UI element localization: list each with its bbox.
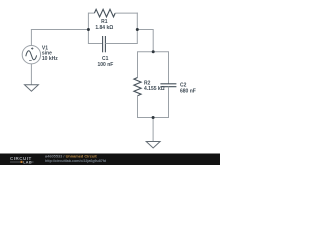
- junction node B (right vertical): [136, 28, 139, 31]
- resistor R1: [94, 9, 115, 17]
- svg-text:1.84 kΩ: 1.84 kΩ: [95, 25, 113, 31]
- svg-text:http://circuitlab.com/c/22ja6g: http://circuitlab.com/c/22ja6g9u87fd: [45, 159, 106, 163]
- svg-text:4.155 kΩ: 4.155 kΩ: [144, 86, 165, 92]
- wire R2 bottom lead: [137, 96, 139, 118]
- wire C2 top lead: [168, 52, 170, 84]
- wire left vertical node: [87, 13, 89, 44]
- wire to right ground: [152, 118, 154, 142]
- label C1 value: [97, 56, 113, 68]
- label R1 value: [95, 19, 113, 31]
- wire V1 top vertical: [30, 30, 32, 46]
- wire R2C2 top rail: [137, 51, 169, 53]
- footer bar: [0, 154, 220, 166]
- junction node A (left): [87, 28, 90, 31]
- svg-text:R1: R1: [101, 19, 108, 25]
- wire right vertical node: [136, 13, 138, 44]
- capacitor C1: [103, 36, 106, 52]
- svg-text:100 nF: 100 nF: [97, 62, 113, 68]
- svg-text:C2: C2: [180, 82, 187, 88]
- wire R2C2 bottom rail: [137, 117, 169, 119]
- wire V1 bottom vertical: [30, 64, 32, 85]
- label R2 value: [144, 81, 165, 93]
- junction node C (top rail R2C2): [152, 50, 155, 53]
- wire top rail left of R1: [88, 12, 94, 14]
- junction node D (bottom rail R2C2): [152, 116, 155, 119]
- CircuitLab logo: [10, 156, 34, 164]
- label V1: [42, 45, 58, 62]
- wire C1 rail right: [105, 43, 137, 45]
- wire R2 top lead: [137, 52, 139, 78]
- footer text: [45, 154, 106, 163]
- label C2 value: [180, 82, 196, 94]
- svg-text:10 kHz: 10 kHz: [42, 56, 58, 62]
- wire top rail right of R1: [115, 12, 138, 14]
- svg-text:680 nF: 680 nF: [180, 89, 196, 95]
- wire branch to RC network: [137, 30, 153, 53]
- ground (left, below V1): [25, 85, 39, 92]
- capacitor C2: [160, 84, 176, 87]
- wire top horizontal from V1 to left node: [31, 29, 89, 31]
- ground (right, below R2C2): [146, 142, 160, 149]
- wire C2 bottom lead: [168, 87, 170, 118]
- resistor R2: [134, 78, 141, 96]
- voltage source V1: [22, 46, 40, 64]
- wire C1 rail left: [88, 43, 102, 45]
